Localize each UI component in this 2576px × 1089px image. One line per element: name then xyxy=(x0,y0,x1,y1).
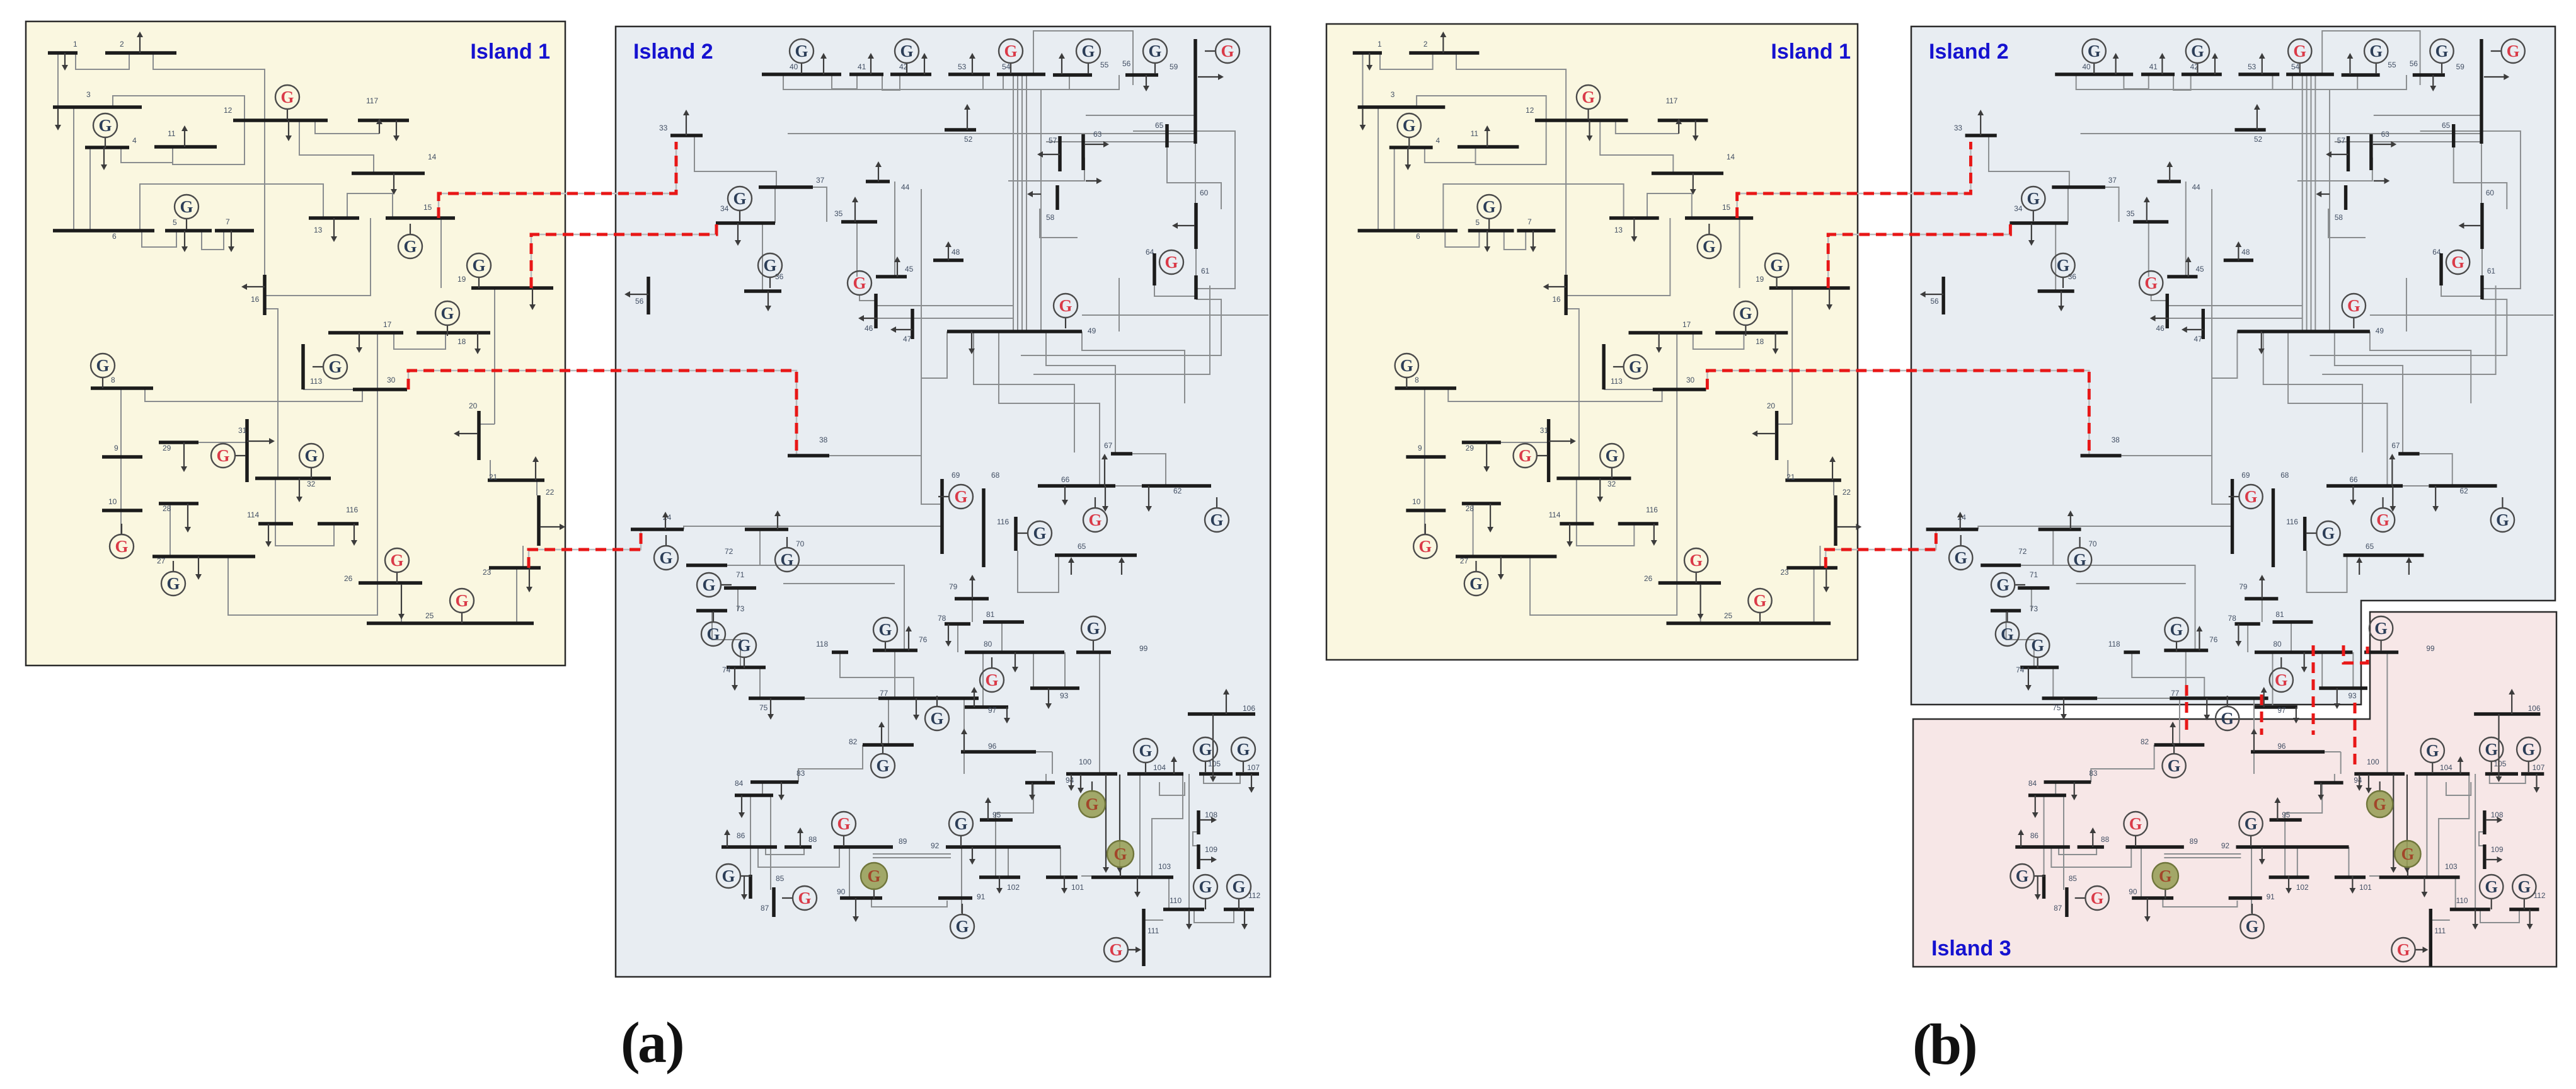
tie-line island2-island3 (dashed) xyxy=(2185,685,2188,735)
network one-line diagram (panel a) xyxy=(48,31,1268,966)
svg-text:Island 2: Island 2 xyxy=(1929,40,2009,64)
svg-text:b: b xyxy=(1929,1012,1962,1076)
svg-text:): ) xyxy=(1958,1012,1978,1076)
Island 1 region box (panel a) xyxy=(26,21,565,665)
tie-line island2-island3 (dashed) xyxy=(2260,694,2263,735)
svg-text:a: a xyxy=(638,1010,667,1075)
tie-line island2-island3 (dashed) xyxy=(2354,703,2357,767)
network one-line diagram (panel b) xyxy=(1353,31,2553,966)
Island 1 region box (panel b) xyxy=(1326,24,1858,660)
Island 2 region box (panel a) xyxy=(616,26,1270,977)
svg-text:Island 1: Island 1 xyxy=(470,40,550,64)
svg-text:Island 3: Island 3 xyxy=(1931,936,2011,960)
Island 3 region box (panel b) xyxy=(1913,612,2556,967)
svg-text:Island 1: Island 1 xyxy=(1771,40,1851,64)
tie-line island2-island3 (dashed) xyxy=(2312,645,2315,735)
svg-text:): ) xyxy=(665,1010,685,1075)
svg-text:Island 2: Island 2 xyxy=(633,40,713,64)
Island 2 region box (panel b) xyxy=(1911,26,2555,705)
tie-line island2-island3 (dashed) xyxy=(2343,645,2367,663)
